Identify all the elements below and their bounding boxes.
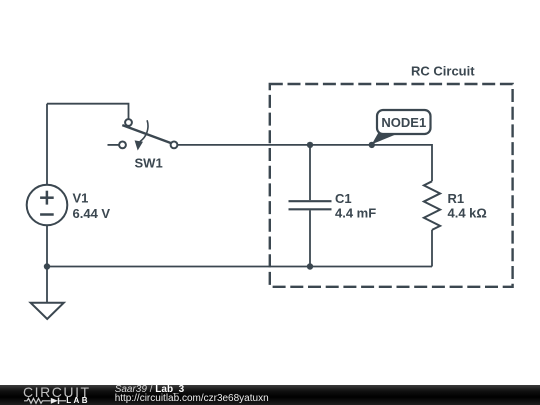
svg-text:SW1: SW1 <box>135 155 163 170</box>
svg-text:4.4 kΩ: 4.4 kΩ <box>448 206 487 221</box>
svg-text:NODE1: NODE1 <box>381 115 426 130</box>
svg-text:V1: V1 <box>73 190 89 205</box>
svg-text:4.4 mF: 4.4 mF <box>335 206 376 221</box>
svg-text:C1: C1 <box>335 191 352 206</box>
svg-text:RC Circuit: RC Circuit <box>411 64 475 79</box>
svg-text:6.44 V: 6.44 V <box>73 206 111 221</box>
svg-text:R1: R1 <box>448 191 465 206</box>
